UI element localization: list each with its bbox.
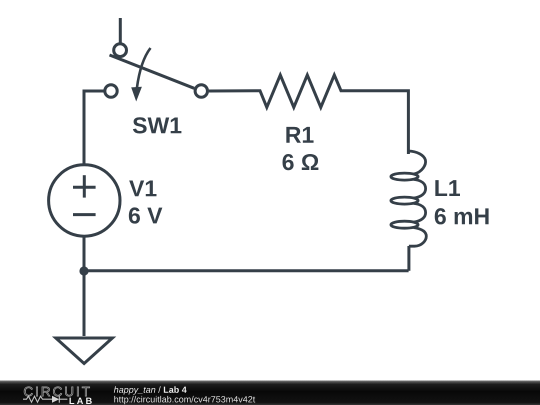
V1 plus sign [73, 186, 96, 189]
switch SW1 top terminal circle [114, 44, 127, 57]
inductor L1 coil [408, 151, 425, 174]
label R1 value 6 ohm [283, 154, 319, 170]
bottom rail wire [84, 269, 409, 272]
junction node dot [79, 266, 88, 275]
top rail wire with resistor R1 zigzag [209, 75, 409, 154]
footer url [114, 396, 255, 404]
switch SW1 blade [110, 55, 195, 88]
label L1 [435, 180, 460, 196]
footer title: happy_tan / Lab 4 [114, 386, 187, 394]
wire V1 bottom to junction [83, 236, 86, 271]
logo resistor-diode squiggle [23, 396, 67, 403]
V1 minus sign [73, 213, 96, 216]
wire inductor bottom to rail [407, 246, 410, 271]
label V1 [129, 180, 156, 196]
switch SW1 right terminal circle [195, 85, 207, 97]
logo CIRCUIT outline text [24, 387, 90, 396]
switch arc arrowhead [131, 87, 142, 102]
switch SW1 actuation arc [137, 48, 151, 88]
wire from switch left terminal to V1 top [84, 91, 105, 164]
wire top stub above switch [119, 18, 122, 44]
label L1 value 6 mH [435, 208, 489, 224]
wire junction to ground [83, 271, 86, 336]
label R1 [286, 127, 313, 143]
footer black bar [0, 380, 540, 405]
voltage source V1 circle [49, 165, 120, 236]
label V1 value 6 V [129, 207, 163, 223]
switch SW1 left terminal circle [105, 85, 117, 97]
ground symbol [56, 338, 113, 364]
label SW1 [133, 117, 182, 133]
logo LAB text [70, 398, 92, 404]
